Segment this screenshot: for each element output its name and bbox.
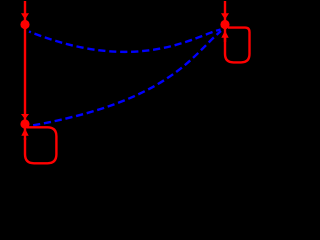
arrowhead up on node B self-loop [21, 128, 28, 135]
node C (top-right vertex dot) [220, 20, 229, 29]
blue dashed propagator diagonal (node B to node C) [30, 31, 222, 126]
arrowhead down on right line above node C [221, 13, 229, 19]
arrowhead down on left line above node A [21, 13, 29, 19]
self-loop at node B [25, 127, 56, 163]
blue dashed propagator top (node A to node C) [29, 30, 221, 52]
wire left worldline [24, 1, 26, 140]
self-loop at node C [225, 28, 250, 63]
node A (top-left vertex dot) [20, 20, 29, 29]
node B (bottom-left vertex dot) [20, 119, 29, 128]
wire right worldline [224, 1, 226, 42]
arrowhead up on node C self-loop [221, 30, 228, 37]
arrowhead down on left line above node B [21, 114, 29, 119]
